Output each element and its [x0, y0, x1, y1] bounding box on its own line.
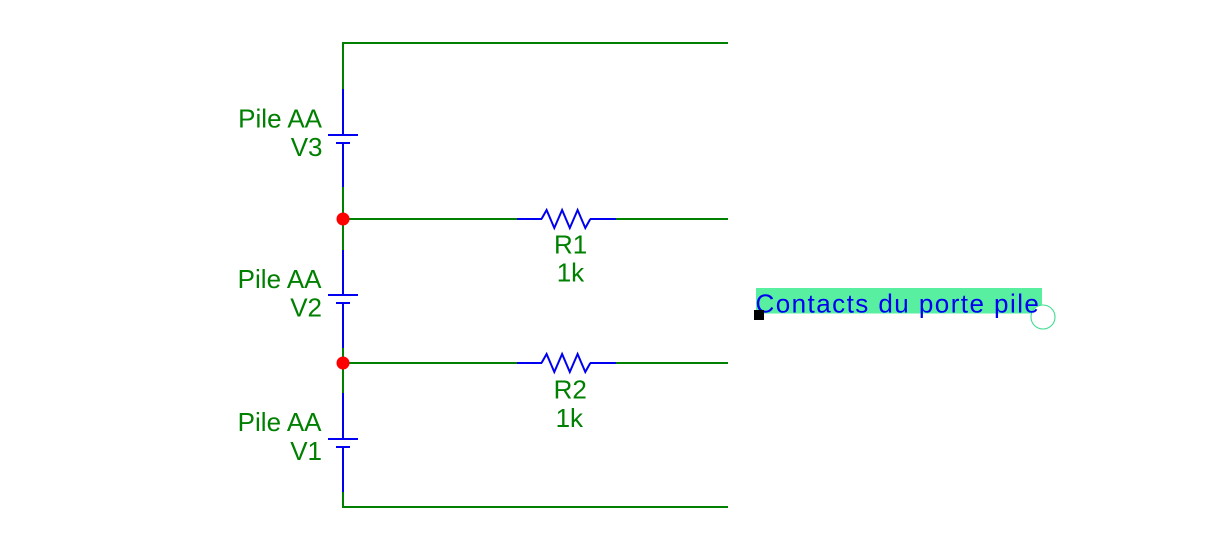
resistor R2 right lead	[590, 362, 616, 364]
wire vertical node A segment	[342, 187, 344, 250]
resistor R2 left lead	[517, 362, 542, 364]
wire top horizontal	[342, 42, 728, 44]
wire node A to R1	[342, 218, 517, 220]
svg-text:Contacts du porte pile: Contacts du porte pile	[756, 288, 1041, 318]
annotation highlight box	[756, 288, 1042, 314]
battery V1 positive plate	[328, 438, 358, 440]
svg-text:Pile AA: Pile AA	[238, 264, 322, 294]
battery V2 negative plate	[336, 302, 350, 304]
wire R2 to right end	[616, 362, 728, 364]
svg-text:V1: V1	[290, 436, 322, 466]
resistor R1 zigzag	[542, 210, 591, 228]
battery V3 bottom lead	[342, 144, 344, 187]
battery V2 top lead	[342, 250, 344, 294]
battery V2 bottom lead	[342, 304, 344, 348]
svg-text:1k: 1k	[556, 403, 584, 433]
junction node B	[337, 357, 350, 370]
svg-text:1k: 1k	[557, 257, 585, 287]
svg-text:V3: V3	[291, 132, 323, 162]
resistor R1 right lead	[590, 218, 616, 220]
battery V1 bottom lead	[342, 448, 344, 492]
annotation anchor square	[754, 310, 764, 320]
battery V3 positive plate	[328, 134, 358, 136]
resistor R1 left lead	[517, 218, 542, 220]
svg-text:Pile AA: Pile AA	[238, 407, 322, 437]
wire R1 to right end	[616, 218, 728, 220]
svg-text:Pile AA: Pile AA	[238, 104, 322, 134]
battery V3 top lead	[342, 89, 344, 134]
svg-text:R2: R2	[554, 375, 587, 405]
battery V3 negative plate	[336, 142, 350, 144]
battery V2 positive plate	[328, 294, 358, 296]
wire left vertical bottom segment	[342, 492, 344, 508]
wire left vertical top segment	[342, 42, 344, 89]
junction node A	[337, 213, 350, 226]
battery V1 negative plate	[336, 446, 350, 448]
wire node B to R2	[342, 362, 517, 364]
wire bottom horizontal	[342, 506, 728, 508]
battery V1 top lead	[342, 393, 344, 438]
svg-text:V2: V2	[290, 293, 322, 323]
annotation handle circle	[1031, 305, 1055, 329]
wire vertical node B segment	[342, 348, 344, 393]
svg-text:R1: R1	[554, 230, 587, 260]
resistor R2 zigzag	[542, 354, 591, 372]
